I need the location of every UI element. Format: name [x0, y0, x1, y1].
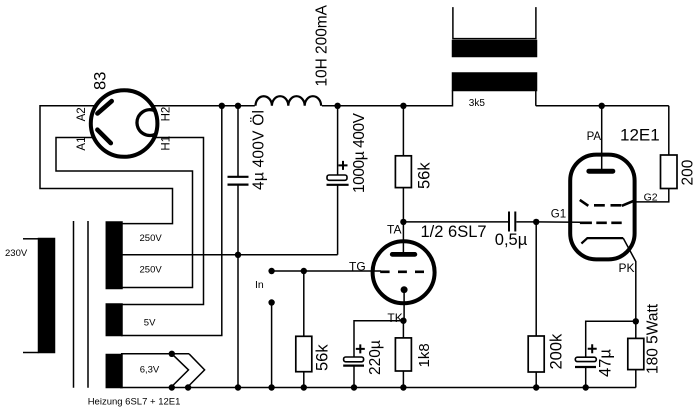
junction ground 47u	[583, 384, 589, 390]
junction node center tap	[235, 252, 241, 258]
B+ wire to 12E1 anode node	[536, 105, 669, 107]
junction node B+ 5V tap	[219, 103, 225, 109]
svg-text:G2: G2	[644, 192, 658, 204]
wire TA into anode	[402, 222, 404, 252]
svg-text:H1: H1	[160, 136, 172, 151]
svg-text:200: 200	[680, 159, 697, 185]
svg-text:10H 200mA: 10H 200mA	[314, 4, 331, 86]
driver tube 1/2 6SL7 envelope	[373, 241, 435, 303]
wire G1 node to 12E1 grid	[536, 221, 580, 223]
junction ground input	[268, 384, 274, 390]
ground rail	[120, 387, 636, 389]
capacitor C5 plus sign	[588, 344, 597, 353]
svg-text:83: 83	[92, 72, 110, 90]
junction node 56k top	[400, 103, 406, 109]
junction node 1000u cap	[334, 103, 340, 109]
output transformer primary lead right	[535, 91, 537, 106]
wire 220u to ground	[353, 366, 355, 388]
wire grid TG	[272, 270, 381, 272]
capacitor C2 1000u 400V vertical wire	[337, 106, 339, 255]
output transformer speaker leads	[453, 7, 536, 38]
junction heater top	[169, 351, 175, 357]
input terminal upper	[268, 268, 274, 274]
capacitor C2 plates	[327, 175, 347, 180]
junction ground 1k8	[400, 384, 406, 390]
resistor R5 200k body	[528, 336, 544, 372]
resistor R1 56k (plate load) wire	[402, 106, 404, 222]
output transformer OT primary bar	[453, 73, 537, 91]
junction ground 200k	[533, 384, 539, 390]
6SL7 grid dashes	[380, 270, 424, 273]
wire H1 to 5V winding top	[121, 138, 204, 305]
capacitor C1 plates	[228, 177, 249, 185]
wire 47u to ground	[585, 367, 587, 388]
junction node PK	[633, 318, 639, 324]
wire PK node to 47u cap	[586, 321, 636, 357]
6SL7 anode bar	[392, 252, 415, 257]
resistor R4 1k8 body	[395, 338, 411, 371]
resistor R6 180 5Watt body	[628, 338, 644, 369]
junction ground 220u	[351, 384, 357, 390]
resistor R2 200 body	[661, 155, 678, 189]
12E1 control grid G1 dashes	[580, 222, 622, 225]
6.3V secondary winding bar	[106, 355, 122, 388]
wire G1 node down to R5 200k	[535, 222, 537, 388]
wire to resistor R2 200	[668, 106, 670, 155]
svg-text:TG: TG	[349, 260, 366, 274]
svg-text:230V: 230V	[5, 248, 28, 259]
5V secondary winding bar	[106, 304, 122, 336]
capacitor C4 plus sign	[356, 344, 365, 353]
svg-text:250V: 250V	[140, 233, 163, 244]
wire PK cathode to node	[623, 238, 636, 321]
12E1 cathode	[581, 238, 623, 243]
capacitor C1 4u 400V Oil vertical wire	[237, 106, 239, 388]
6.3V heater wire top	[121, 353, 189, 355]
svg-text:47µ: 47µ	[597, 349, 615, 377]
svg-text:PA: PA	[587, 131, 602, 143]
output transformer OT secondary bar	[453, 41, 537, 57]
junction heater bottom 1	[169, 384, 175, 390]
wire cathode to TK node	[403, 290, 405, 321]
coupling wire TA node to 0.5u cap	[403, 221, 508, 223]
svg-text:H2: H2	[160, 107, 172, 122]
wire R2 bottom to G2	[634, 189, 669, 202]
junction node G1	[533, 219, 539, 225]
tube 83 anode plate A2	[97, 101, 111, 113]
capacitor C3 0,5u plates	[509, 212, 515, 232]
junction heater bottom 2	[185, 384, 191, 390]
capacitor C2 plus sign	[339, 161, 348, 170]
power transformer primary winding bar	[39, 239, 55, 353]
heater chevron 2	[188, 354, 205, 387]
capacitor C5 47u plates	[575, 357, 596, 361]
primary terminal top	[23, 238, 39, 240]
svg-text:4µ 400V Öl: 4µ 400V Öl	[250, 110, 268, 190]
svg-text:56k: 56k	[416, 162, 434, 189]
svg-text:0,5µ: 0,5µ	[495, 231, 528, 249]
svg-text:1k8: 1k8	[416, 343, 433, 367]
wire input ground leg	[271, 303, 273, 388]
svg-text:3k5: 3k5	[469, 98, 486, 109]
svg-text:Heizung 6SL7 + 12E1: Heizung 6SL7 + 12E1	[88, 396, 181, 407]
tube 83 anode plate A1	[97, 130, 110, 143]
B+ wire tube to choke	[222, 105, 255, 107]
svg-text:A1: A1	[76, 137, 88, 151]
resistor R3 56k body	[296, 336, 312, 371]
svg-text:6,3V: 6,3V	[140, 364, 160, 375]
choke L1 10H 200mA	[256, 96, 322, 106]
wire TK to 220u cap	[354, 321, 403, 357]
wire grid resistor R3 56k	[303, 271, 305, 388]
transformer core line 1	[73, 221, 75, 388]
svg-text:56k: 56k	[314, 344, 332, 371]
rectifier tube V1 83 envelope	[91, 90, 158, 157]
tube 83 heater/cathode arc	[137, 110, 156, 136]
transformer core line 2	[87, 221, 89, 388]
svg-text:PK: PK	[619, 261, 635, 275]
capacitor C4 220u plates	[344, 357, 364, 362]
svg-text:TA: TA	[387, 223, 401, 237]
svg-text:TK: TK	[387, 311, 402, 325]
resistor R1 56k body	[395, 156, 411, 188]
svg-text:12E1: 12E1	[620, 126, 660, 145]
B+ wire choke to output transformer	[322, 91, 453, 106]
primary terminal bottom	[23, 352, 39, 354]
wire 0.5u to G1 node	[516, 221, 536, 223]
svg-text:180 5Watt: 180 5Watt	[645, 303, 662, 374]
6SL7 cathode dot	[401, 286, 408, 293]
wire A1 from tube to HV winding bottom	[56, 138, 193, 288]
junction node TA	[400, 219, 406, 225]
wire TK down to R4 1k8	[402, 321, 404, 388]
svg-text:220µ: 220µ	[367, 340, 384, 375]
junction node PA	[599, 103, 605, 109]
svg-text:1/2 6SL7: 1/2 6SL7	[421, 223, 487, 241]
wire 5V winding bottom up to B+	[121, 106, 222, 336]
junction ground 56k	[301, 384, 307, 390]
svg-text:200k: 200k	[548, 333, 566, 370]
heater chevron 1	[172, 354, 189, 387]
junction node TK	[400, 318, 406, 324]
svg-text:A2: A2	[76, 107, 88, 121]
HV center tap wire to filter caps	[121, 254, 338, 256]
12E1 screen grid G2 dashes	[580, 200, 635, 206]
12E1 anode bar	[589, 169, 613, 174]
svg-text:250V: 250V	[140, 265, 163, 276]
svg-text:1000µ 400V: 1000µ 400V	[351, 112, 368, 193]
svg-text:In: In	[255, 279, 264, 291]
input terminal lower	[268, 299, 274, 305]
junction node 4u cap	[235, 103, 241, 109]
wire A2 from tube to HV winding top	[40, 106, 173, 224]
junction node grid/56k	[301, 268, 307, 274]
wire PK node down to R6 180	[635, 321, 637, 387]
HV secondary winding bar	[106, 222, 122, 289]
wire H2 to B+ rail	[154, 105, 222, 107]
svg-text:G1: G1	[551, 209, 566, 221]
output tube 12E1 envelope	[570, 155, 634, 260]
svg-text:5V: 5V	[144, 317, 156, 328]
junction ground 4u	[235, 384, 241, 390]
wire PA node down to 12E1 anode	[601, 106, 603, 169]
